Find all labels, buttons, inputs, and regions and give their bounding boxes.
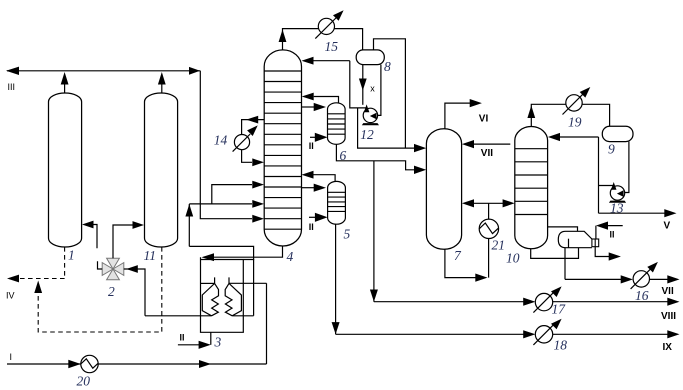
svg-text:5: 5 [344,227,351,242]
wire cooler 14 return [242,150,252,163]
arrow condenser 19 diagonal [580,87,591,98]
arrow stripper 6 vapor into column 4 [302,93,314,101]
heat exchanger 20 [81,355,98,372]
wire overhead after cooler to drum 8 [335,29,363,50]
svg-text:21: 21 [492,238,506,253]
arrow into column 4 feed B [252,200,264,208]
arrow down on line IX corner [332,322,340,334]
svg-text:II: II [180,333,185,343]
wire drum 8 right to pump 12 discharge [378,65,381,116]
vessel 1 (adsorber) [49,93,82,247]
kettle weir [568,239,570,248]
svg-text:VI: VI [479,113,489,124]
arrow into vessel 1 right side [82,221,94,229]
drum 8 (reflux drum) [356,50,384,65]
arrow down stream x [359,79,367,91]
wire pump 12 reflux to column 4 [314,61,367,108]
svg-text:11: 11 [144,248,157,263]
arrow VII out [667,275,679,283]
arrow up on furnace transfer line [185,204,193,217]
wire reflux into column 10 [560,136,599,138]
wire valve 2 top port to vessel 11 [113,225,133,258]
svg-text:10: 10 [506,251,520,266]
wire vessel 11 top to III [161,80,163,93]
wire stripper 5 bottoms to line IX [335,224,337,334]
wire column 7 bottoms [445,249,476,277]
exchanger 21 (reboiler heater) [479,219,498,238]
arrow up column 10 overhead [527,106,535,119]
wire line II into furnace [178,332,211,345]
arrow II into kettle [596,222,608,230]
arrow column 7 bottoms into riser [475,274,487,282]
wire column 4 to stripper 5 feed [302,187,315,189]
pump 12 [363,108,377,122]
kettle vapor return to column 10 [548,227,578,231]
wire right coil outlet riser [189,204,253,316]
arrow into column 4 lowest feed [252,215,264,223]
arrow condenser 15 diagonal [333,10,344,21]
arrow up vessel 1 [61,72,69,85]
stripper 5 trays [328,192,346,211]
arrow II into furnace [199,341,211,349]
arrow into column 7 right [462,199,474,207]
wire III corner down to column 4 feed [200,71,252,219]
wire II into stripper 6 [310,136,316,138]
column 10 [515,127,548,249]
column 7 (vacuum/stabilizer column) [426,129,461,250]
wire into vessel 1 right side [93,225,97,249]
valve 2 (4-way switching valve) [102,258,124,280]
svg-text:9: 9 [608,142,615,157]
arrow feed into stripper 6 [314,103,326,111]
svg-text:IX: IX [663,342,673,353]
svg-text:VII: VII [481,148,493,159]
arrow VII into column 7 [462,140,474,148]
arrow into column 10 left [503,199,515,207]
svg-text:2: 2 [108,284,115,299]
stripper 6 [328,103,346,145]
wire line IX [336,333,668,335]
svg-text:II: II [610,229,615,239]
arrow condensate [609,252,621,260]
arrow on line I mid [199,360,211,368]
wire VII feed into column 7 [474,143,510,145]
svg-text:1: 1 [68,248,75,263]
cooler 17 [535,293,552,310]
wire stream V [599,212,665,214]
wire pump 12 branch to column 7 [358,108,414,148]
arrow up dashed into IV [34,281,42,294]
arrow on line I before exchanger 20 [68,360,81,368]
svg-text:12: 12 [360,127,374,142]
stripper 5 [328,181,346,224]
arrow VIII out [667,298,679,306]
column 4 (atmospheric column) [264,50,301,246]
condenser 15 [318,18,334,34]
svg-text:3: 3 [214,335,222,350]
svg-text:4: 4 [287,249,294,264]
wire kettle product to line VII [565,278,621,280]
arrow into III right corner [189,67,200,75]
arrow cooler 18 diagonal [551,319,562,330]
arrow down on line VIII corner [370,290,378,302]
svg-text:IV: IV [6,291,15,301]
wire stripper 6 vapor to column 4 [314,97,339,104]
wire line I feed [7,363,267,365]
wire feed I into right coil [229,282,267,284]
svg-text:III: III [8,82,16,92]
wire kettle condensate out [595,247,609,257]
svg-text:8: 8 [384,59,391,74]
wire II into stripper 5 [309,216,316,218]
arrow cooler 17 diagonal [551,286,562,297]
stripper 6 trays [328,114,346,134]
arrow feed into stripper 5 [314,184,326,192]
arrow cooler 14 return into column 4 [252,158,264,166]
wire stripper 6 bottoms to line VIII [373,161,375,302]
arrow reflux into column 10 [548,133,560,141]
wire column 10 overhead [531,104,609,126]
arrow up vessel 11 [158,72,166,85]
wire feed riser to furnace [266,283,268,364]
wire column 4 bottoms to furnace [214,246,283,257]
svg-text:VII: VII [662,286,674,297]
svg-text:VIII: VIII [661,311,676,322]
wire stripper 6 bottoms [336,144,414,170]
arrow cooler 16 diagonal [647,262,658,273]
column 10 trays [515,149,548,215]
wire column 10 bottoms to kettle [531,248,579,259]
wire riser through exchanger 21 [488,203,490,277]
furnace 3 box [201,257,255,332]
arrow on cooler 14 draw-off [246,116,258,124]
arrow II into stripper 5 [315,213,328,222]
svg-text:18: 18 [554,337,568,352]
wire II steam into kettle [596,226,623,239]
arrow into cooler 18 [523,330,535,338]
column 4 trays [264,71,301,229]
kettle sump leg left [564,248,566,280]
wire valve 2 left port [98,261,103,269]
cooler 16 [633,271,649,287]
arrow II into stripper 6 [315,133,328,142]
arrow IV left [7,275,19,283]
svg-text:19: 19 [568,115,582,130]
wire line VIII [374,301,668,303]
arrow V [664,209,676,217]
wire drum 8 bottoms to pump 12 [362,65,364,105]
arrow into valve 2 right port [126,265,138,273]
wire valve 2 right port from furnace [124,269,145,316]
wire interchange column 7 and column 10 [474,202,503,204]
furnace coil left (hairpin with zigzag) [202,277,218,315]
wire column 7 overhead VI [445,103,470,129]
wire column 4 overhead [283,29,319,50]
svg-text:17: 17 [552,302,567,317]
svg-text:14: 14 [214,133,228,148]
dashed drain vessel 11 [38,247,162,332]
arrow feed 2 into column 7 [414,166,426,174]
wire line VII out [650,278,668,280]
wire pump 13 discharge [599,137,614,213]
wire column 4 to stripper 6 feed [302,106,315,108]
svg-text:16: 16 [635,288,649,303]
arrow into furnace left coil line [202,253,215,261]
svg-text:I: I [10,352,13,362]
pump 13 [610,186,624,200]
arrow stripper 5 vapor into column 4 [302,171,314,179]
wire drum 8 vapor to column 7 [374,39,406,148]
dashed drain vessel 1 [64,247,66,279]
kettle nozzle [592,239,599,247]
vessel 11 (adsorber) [145,93,178,247]
svg-text:II: II [309,141,314,151]
wire left coil outlet to valve 2 [145,315,212,317]
arrow into vessel 11 left side [133,221,145,229]
wire drum 9 to pump 13 [625,142,629,193]
svg-text:15: 15 [325,39,339,54]
arrow III left [6,67,19,75]
arrow VI [470,99,482,107]
condenser 19 [566,95,582,111]
arrow feed 1 into column 7 [414,144,426,152]
svg-text:II: II [309,222,314,232]
arrow into column 4 feed C [252,181,264,189]
cooler 14 [234,135,249,150]
wire furnace transfer branch (upper) [212,185,252,204]
furnace coil left inlet wire [201,282,215,284]
wire vessel 1 top to III [64,80,66,93]
arrow IX out [667,330,679,338]
arrow up column 4 overhead [279,30,287,43]
svg-text:V: V [664,221,671,232]
svg-text:7: 7 [454,248,462,263]
svg-text:20: 20 [77,374,91,389]
wire line III header [7,70,200,72]
svg-text:x: x [370,84,375,94]
kettle reboiler body [558,231,592,247]
wire furnace transfer to column 4 (lower) [189,203,252,205]
arrow into cooler 17 [523,298,535,306]
furnace coil right (hairpin with zigzag) [225,277,241,315]
arrow into cooler 16 [621,275,633,283]
cooler 18 [535,326,552,343]
cooler 14 draw-off wire [242,120,265,135]
drum 9 [602,126,633,141]
arrow cooler 14 diagonal [247,125,258,136]
arrow reflux into column 4 top [302,57,314,65]
wire stripper 5 vapor to column 4 [314,175,336,182]
dashed line IV [13,278,65,280]
